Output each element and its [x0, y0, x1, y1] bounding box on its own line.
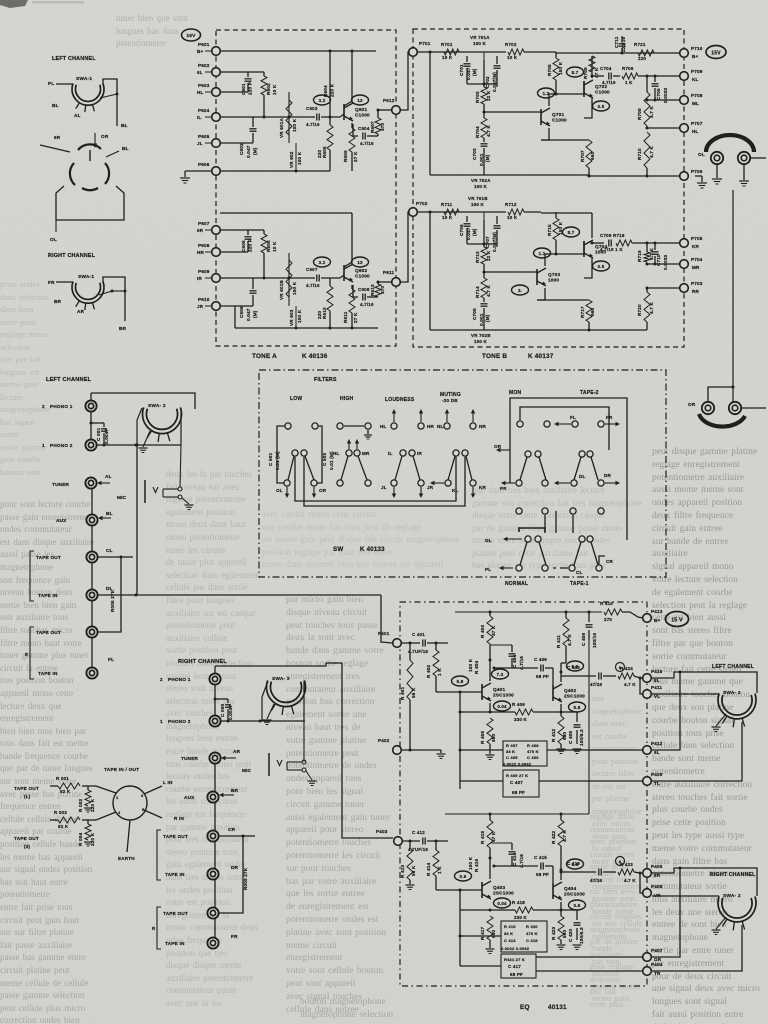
capacitor C401	[422, 640, 424, 647]
svg-text:10 K: 10 K	[507, 215, 518, 220]
svg-text:R609: R609	[266, 240, 271, 252]
svg-text:P403: P403	[376, 829, 388, 834]
ground R405	[486, 754, 495, 756]
svg-text:P608: P608	[198, 243, 210, 248]
svg-text:220 P: 220 P	[248, 82, 253, 95]
wire SWA-2 left drop	[137, 408, 142, 420]
svg-text:C1000: C1000	[355, 274, 370, 279]
svg-text:P411: P411	[651, 685, 663, 690]
svg-text:P611: P611	[383, 270, 395, 275]
svg-text:2SC1000: 2SC1000	[493, 693, 514, 698]
wire GL arrow	[505, 538, 522, 540]
capacitor C701	[466, 56, 468, 62]
connector P705	[680, 239, 689, 248]
svg-text:PL: PL	[485, 567, 491, 572]
wire emitter Q701 down	[541, 128, 549, 140]
switch MON row2	[525, 451, 531, 457]
svg-text:R606: R606	[343, 150, 348, 162]
wire DR arrow	[605, 482, 618, 484]
bracket tape pair L1	[30, 551, 34, 601]
connector P413	[643, 614, 652, 623]
svg-text:68 PF: 68 PF	[512, 790, 525, 795]
svg-text:10 K: 10 K	[272, 241, 277, 252]
capacitor C002	[215, 698, 228, 700]
svg-text:C707: C707	[485, 236, 490, 248]
svg-text:PL: PL	[48, 81, 54, 86]
wire Q702 output node	[592, 75, 604, 77]
svg-text:VL: VL	[654, 694, 660, 699]
svg-text:0.0047: 0.0047	[104, 429, 109, 444]
svg-text:Q401: Q401	[493, 687, 505, 692]
block EQ outline	[400, 602, 647, 986]
svg-text:8.7: 8.7	[568, 230, 575, 235]
jack PHONO2 L	[85, 439, 96, 450]
svg-text:P704: P704	[691, 257, 703, 262]
wire to P611	[378, 281, 392, 283]
svg-text:2SC1000: 2SC1000	[564, 694, 585, 699]
svg-text:Q404: Q404	[564, 886, 576, 891]
svg-text:MIC: MIC	[117, 495, 127, 500]
wire tape1 link	[553, 567, 556, 569]
svg-text:(L): (L)	[24, 794, 31, 799]
switch LOUD arrows bottom	[393, 487, 395, 496]
svg-text:C603: C603	[306, 106, 318, 111]
wire network right left	[460, 935, 501, 937]
svg-text:R 406: R 406	[512, 702, 525, 707]
svg-text:56 K: 56 K	[411, 687, 416, 698]
wire emitter Q602 out	[353, 285, 358, 297]
wire P708 row	[647, 99, 680, 101]
svg-text:TUNER: TUNER	[52, 482, 70, 487]
svg-text:R613: R613	[370, 284, 375, 296]
wire collector Q601	[344, 51, 352, 106]
svg-text:C 008: C 008	[220, 703, 225, 717]
bracket tape pair R1	[157, 830, 161, 880]
svg-text:AUX: AUX	[56, 518, 67, 523]
svg-text:SWA- 3: SWA- 3	[272, 676, 290, 682]
svg-text:R611: R611	[343, 311, 348, 323]
svg-text:PR: PR	[500, 486, 507, 491]
capacitor C602	[250, 128, 257, 130]
svg-text:68 PF: 68 PF	[536, 674, 549, 679]
jack TAPE OUT L1	[86, 551, 97, 562]
wire TAPE1 bracket	[519, 528, 545, 532]
resistor R421b	[558, 916, 564, 940]
resistor R704	[481, 118, 487, 138]
wire bottom rail tone B lower	[430, 329, 647, 331]
svg-text:AR: AR	[77, 309, 85, 314]
wire signal row y278	[220, 277, 312, 279]
connector P402	[393, 746, 402, 755]
svg-text:B+: B+	[692, 54, 699, 59]
svg-text:C703: C703	[472, 148, 477, 160]
svg-text:100 K: 100 K	[473, 41, 487, 46]
wire OR jack up	[708, 387, 733, 402]
wire input rail tone B lower	[417, 211, 462, 213]
wire P612 to P701	[400, 52, 409, 110]
wire P401 in	[402, 642, 420, 644]
svg-text:JR: JR	[427, 485, 434, 490]
svg-text:R721: R721	[634, 42, 646, 47]
svg-text:4.7/16 1 K: 4.7/16 1 K	[600, 247, 623, 252]
wire P410 loop top	[652, 672, 757, 693]
svg-text:100/6.3: 100/6.3	[579, 729, 584, 746]
svg-text:0.047: 0.047	[246, 145, 251, 158]
jack OL right	[738, 152, 750, 164]
capacitor C607	[316, 275, 318, 282]
jack AUX L	[86, 514, 97, 525]
svg-text:3.2: 3.2	[319, 98, 326, 103]
svg-text:C 407: C 407	[510, 780, 523, 785]
svg-text:R421 27 K: R421 27 K	[504, 957, 525, 962]
wire emitter Q704 out	[584, 258, 592, 278]
svg-text:P607: P607	[198, 221, 210, 226]
svg-text:10 K: 10 K	[442, 55, 453, 60]
svg-text:0.047(M): 0.047(M)	[492, 72, 497, 92]
resistor R717	[537, 299, 589, 301]
svg-text:HIGH: HIGH	[340, 396, 353, 402]
svg-text:4.7 K: 4.7 K	[649, 106, 654, 118]
svg-text:220: 220	[317, 149, 322, 158]
wire P411 to SWA-2	[652, 693, 719, 695]
gain oval 0.04 b	[494, 898, 511, 908]
svg-text:C 406: C 406	[534, 657, 547, 662]
svg-text:PHONO 1: PHONO 1	[50, 404, 73, 409]
wire MIC drop	[180, 445, 181, 487]
svg-text:R 416: R 416	[474, 858, 479, 872]
gain oval 0.5 lower	[593, 261, 610, 271]
svg-text:P701: P701	[419, 41, 431, 46]
switch TAPE1 arms	[520, 542, 527, 565]
connector P706	[680, 172, 689, 181]
svg-text:P401: P401	[378, 631, 390, 636]
svg-text:FL: FL	[570, 415, 576, 420]
potentiometer VR601A	[288, 92, 290, 143]
svg-text:LEFT CHANNEL: LEFT CHANNEL	[46, 377, 92, 383]
svg-text:C604: C604	[358, 126, 370, 131]
jack PHONO1 L	[85, 400, 96, 411]
svg-text:33 K: 33 K	[506, 749, 515, 754]
wire emitter Q401 node	[489, 703, 491, 712]
svg-text:BR: BR	[54, 299, 62, 304]
wire left vertical x430 lower	[429, 212, 431, 330]
wire base Q601	[340, 114, 344, 117]
resistor R415	[487, 820, 493, 848]
svg-text:6L: 6L	[654, 750, 660, 755]
svg-text:220 K: 220 K	[90, 832, 95, 846]
svg-text:VR 601A: VR 601A	[279, 117, 284, 138]
svg-text:P604: P604	[198, 108, 210, 113]
svg-text:TAPE OUT: TAPE OUT	[36, 555, 61, 560]
resistor R711	[444, 209, 459, 215]
wire P706 row	[647, 175, 680, 177]
jack TAPE IN R1	[207, 868, 218, 879]
resistor R706	[622, 73, 638, 79]
svg-text:HL: HL	[380, 424, 387, 429]
wire bottom row tone A	[235, 327, 378, 329]
svg-text:RIGHT CHANNEL: RIGHT CHANNEL	[178, 659, 227, 665]
svg-text:DL: DL	[579, 474, 586, 479]
svg-text:2SC1000: 2SC1000	[493, 891, 514, 896]
capacitor C603	[316, 114, 318, 121]
svg-text:B+: B+	[654, 618, 661, 623]
svg-text:4.7 K: 4.7 K	[624, 878, 636, 883]
svg-text:0.04: 0.04	[497, 901, 507, 906]
capacitor C414	[511, 843, 513, 850]
svg-text:OR: OR	[688, 402, 696, 407]
svg-text:1: 1	[42, 443, 45, 448]
svg-text:R 414: R 414	[426, 862, 431, 876]
wire P704 row	[647, 263, 680, 265]
svg-text:FL: FL	[108, 657, 114, 662]
svg-text:HR: HR	[427, 424, 435, 429]
svg-text:47/16: 47/16	[590, 878, 603, 883]
svg-text:P709: P709	[691, 69, 703, 74]
svg-text:470 K: 470 K	[527, 749, 539, 754]
svg-text:KL: KL	[452, 488, 459, 493]
svg-text:4.7 K: 4.7 K	[567, 634, 572, 646]
resistor R719	[646, 243, 648, 252]
supply label 15V (tone B)	[706, 46, 726, 59]
svg-text:K 40133: K 40133	[360, 546, 385, 553]
svg-text:R 408: R 408	[527, 743, 539, 748]
wire P602 branch	[220, 71, 264, 73]
svg-text:13: 13	[357, 260, 363, 265]
svg-text:VR 702A: VR 702A	[471, 178, 491, 183]
wire wiper node	[467, 83, 497, 85]
svg-text:OR: OR	[319, 488, 327, 493]
connector P412	[643, 746, 652, 755]
transistor Q403	[481, 882, 483, 898]
selector switch (circle) left channel	[78, 144, 101, 150]
wire CL loop	[98, 557, 121, 632]
wire SWA-1R right to BR	[103, 277, 125, 321]
supply label 15V (top)	[182, 29, 201, 41]
svg-text:4.7/16: 4.7/16	[306, 283, 320, 288]
capacitor C702	[496, 56, 498, 64]
svg-text:LOUDNESS: LOUDNESS	[385, 397, 415, 403]
svg-text:P705: P705	[691, 236, 703, 241]
svg-text:LOW: LOW	[290, 396, 302, 402]
svg-text:R709: R709	[637, 108, 642, 120]
svg-text:GL: GL	[485, 538, 492, 543]
svg-text:4.7/16: 4.7/16	[360, 141, 374, 146]
ground R421b	[557, 944, 566, 946]
svg-text:470: 470	[380, 122, 385, 131]
svg-text:R 405: R 405	[480, 730, 485, 744]
svg-text:AL: AL	[74, 113, 81, 118]
svg-text:R 407: R 407	[506, 743, 518, 748]
svg-text:P402: P402	[378, 738, 390, 743]
gain circle 8	[616, 663, 625, 672]
wire DIN R IN	[144, 810, 162, 818]
svg-text:P605: P605	[198, 134, 210, 139]
resistor R001	[58, 783, 80, 789]
svg-text:BL: BL	[122, 146, 129, 151]
terminal PR arrow	[503, 482, 515, 484]
svg-text:PHONO 2: PHONO 2	[50, 443, 73, 448]
svg-text:8L: 8L	[654, 678, 660, 683]
svg-text:C704: C704	[600, 66, 612, 71]
svg-text:SWA-1: SWA-1	[76, 76, 92, 82]
svg-text:C 413: C 413	[504, 938, 516, 943]
capacitor C709 R718	[608, 240, 610, 247]
switch LOUD arrows top	[393, 411, 395, 422]
jack TUNER L	[85, 477, 96, 488]
svg-text:82 K: 82 K	[58, 824, 69, 829]
svg-text:470 K: 470 K	[526, 931, 538, 936]
svg-text:R720: R720	[637, 304, 642, 316]
svg-text:R 401: R 401	[400, 686, 405, 700]
svg-text:0.5: 0.5	[598, 264, 605, 269]
svg-text:P406: P406	[651, 884, 663, 889]
switch LOUD mid contacts	[400, 450, 406, 456]
rotary SWA-3 input selector	[267, 680, 306, 706]
wire emitter Q702 out	[584, 98, 592, 118]
svg-text:0.5: 0.5	[598, 104, 605, 109]
resistor R414	[435, 841, 437, 850]
svg-text:BL: BL	[52, 103, 59, 108]
wire SWA-1 right to BL	[103, 79, 117, 126]
terminal KR arrow	[472, 487, 474, 496]
svg-text:P606: P606	[198, 162, 210, 167]
capacitor C601	[245, 78, 252, 80]
wire collector Q701 up	[549, 94, 556, 106]
svg-text:33 K: 33 K	[504, 931, 513, 936]
svg-text:3.: 3.	[518, 288, 522, 293]
transistor Q703	[536, 269, 538, 285]
capacitor C707	[496, 216, 498, 224]
svg-text:R 423: R 423	[551, 926, 556, 940]
svg-text:FR: FR	[606, 415, 613, 420]
svg-text:R713: R713	[475, 251, 480, 263]
wire base Q401	[436, 691, 482, 693]
svg-text:C 417: C 417	[508, 964, 521, 969]
wire collector Q702 up	[591, 56, 593, 78]
connector P612	[392, 106, 401, 115]
svg-text:470: 470	[380, 285, 385, 294]
capacitor C608	[362, 294, 364, 301]
resistor R707	[541, 139, 589, 141]
capacitor C606	[250, 290, 257, 292]
ground SWA-2 left out	[716, 714, 726, 726]
wire rail EQ top	[455, 611, 602, 613]
transistor Q401	[481, 684, 483, 700]
svg-text:NL: NL	[437, 424, 444, 429]
rotary SWA-2 input selector	[142, 407, 181, 433]
wire bottom rail to P706	[545, 174, 589, 176]
svg-text:BR: BR	[231, 788, 239, 793]
svg-text:220/16: 220/16	[621, 37, 626, 52]
svg-text:100 K: 100 K	[471, 202, 485, 207]
gain oval 1.2	[538, 88, 555, 98]
svg-text:4.7 K: 4.7 K	[649, 146, 654, 158]
svg-text:AR: AR	[233, 749, 241, 754]
network R407 R408 box	[503, 741, 547, 766]
wire SWA-3 right drop	[303, 681, 305, 721]
svg-text:R 410: R 410	[600, 601, 613, 606]
wire emitter Q404	[560, 902, 562, 916]
svg-text:680: 680	[491, 929, 496, 938]
transistor Q602	[343, 265, 345, 281]
wire frame below selector	[56, 186, 124, 220]
svg-text:C1000: C1000	[595, 90, 610, 95]
svg-text:0.001: 0.001	[479, 313, 484, 326]
wire feedback R418	[459, 890, 461, 910]
svg-text:P708: P708	[691, 93, 703, 98]
svg-text:RIGHT CHANNEL: RIGHT CHANNEL	[710, 872, 756, 878]
svg-text:C 415: C 415	[534, 855, 547, 860]
wire P407 row	[536, 956, 643, 958]
svg-text:(M): (M)	[253, 147, 258, 155]
svg-text:P703: P703	[691, 281, 703, 286]
switch LOW mid contacts	[292, 450, 298, 456]
transistor Q601	[343, 104, 345, 120]
svg-text:C 503: C 503	[322, 452, 327, 466]
svg-text:C 401: C 401	[412, 632, 425, 637]
svg-text:(M): (M)	[472, 228, 477, 236]
gain oval 0.5	[593, 101, 610, 111]
wire left vertical x430	[429, 52, 431, 175]
wire P406 drop	[640, 873, 643, 893]
svg-text:5.8: 5.8	[457, 679, 464, 684]
svg-text:C 412: C 412	[412, 830, 425, 835]
svg-text:3.2: 3.2	[319, 260, 326, 265]
capacitor C404	[511, 645, 513, 652]
svg-text:P413: P413	[651, 609, 663, 614]
svg-text:680: 680	[562, 731, 567, 740]
wire collector Q402	[561, 662, 566, 664]
svg-text:TR: TR	[654, 971, 661, 976]
ground R413	[406, 884, 415, 886]
svg-text:5.8: 5.8	[574, 705, 581, 710]
svg-text:R 402: R 402	[426, 664, 431, 678]
svg-text:Q602: Q602	[355, 268, 367, 273]
svg-text:FR: FR	[48, 280, 55, 285]
connector P709	[680, 72, 689, 81]
jack TUNER R	[209, 752, 220, 763]
svg-text:C 501: C 501	[268, 452, 273, 466]
wire P412 riser	[651, 672, 680, 750]
wire P703 row	[647, 287, 680, 289]
svg-text:R 001: R 001	[56, 776, 69, 781]
svg-text:R 417: R 417	[480, 926, 485, 940]
svg-text:C708: C708	[472, 308, 477, 320]
svg-text:0.047: 0.047	[246, 308, 251, 321]
wire collector Q703 up	[545, 254, 556, 266]
svg-text:C606: C606	[239, 306, 244, 318]
connector P701	[409, 48, 418, 57]
svg-text:R 004: R 004	[78, 832, 83, 846]
switch MON row3	[516, 480, 522, 486]
svg-text:TAPE IN: TAPE IN	[38, 671, 58, 676]
svg-text:MON: MON	[509, 390, 521, 396]
wire PHONO2 row R	[221, 720, 305, 722]
gain oval 0.6	[455, 871, 472, 881]
svg-text:0.0022 0.0062: 0.0022 0.0062	[501, 946, 530, 951]
svg-text:C 409: C 409	[581, 632, 586, 646]
svg-text:150 K: 150 K	[558, 61, 563, 75]
capacitor C706	[466, 216, 468, 222]
wire P610 branch	[220, 305, 253, 307]
svg-text:SW: SW	[333, 546, 343, 553]
resistor R424	[618, 673, 634, 679]
svg-text:R610: R610	[322, 307, 327, 319]
svg-text:IL: IL	[197, 115, 201, 120]
svg-text:R 003: R 003	[54, 810, 67, 815]
svg-text:P610: P610	[198, 297, 210, 302]
transistor Q704	[583, 241, 585, 257]
